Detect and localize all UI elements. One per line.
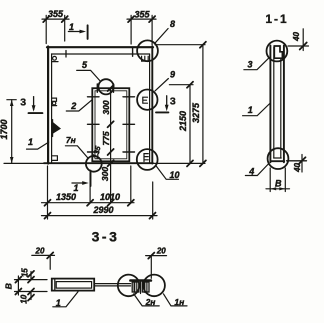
bottom bracket item4 upper line [274,157,281,159]
svg-text:В: В [4,283,14,289]
frame right member inner line [149,54,151,163]
svg-text:1010: 1010 [100,192,120,202]
dim 2150 tick top [187,82,193,88]
hatch tab right y=96.8 [123,96,135,98]
tick 2990 right [150,213,156,219]
joint right lug [142,282,149,292]
ext line B bottom [15,291,48,293]
dim 355 right tick a [128,16,134,22]
ext line B top [15,279,48,281]
svg-text:40: 40 [293,163,302,173]
dim 10 tick [28,289,34,295]
ext frame right to bottom dims [152,182,154,219]
left member bottom tab [52,156,57,161]
dim 355 left ext b [64,15,66,41]
dim 1700 arrow down [10,157,14,163]
section 3 left arrow [33,97,35,110]
label 2 leader [66,100,92,111]
dim 355 right ext b [151,15,153,45]
label 1 leader 3-3 [53,292,78,307]
section 3 right arrow [166,96,168,109]
chain tick y=124.3 [108,121,114,127]
frame top member outer line [47,46,153,48]
dim B tick top [15,277,21,283]
svg-text:355: 355 [134,10,150,20]
joint left lug [132,282,139,292]
tick at frame left [45,200,51,206]
dim 1700 line [11,100,13,164]
label 9 leader [155,79,168,91]
label 8 leader [155,29,168,44]
hatch tab left y=124.3 [88,123,100,125]
circle bottom 1-1 [268,148,289,169]
label 5 leader [77,70,100,80]
bolt hole top-left corner [53,56,57,60]
hatch frame outer rect [92,88,129,161]
hatch tab top x=113.5 [113,84,115,92]
channel left end inner [54,279,56,291]
svg-text:1н: 1н [174,297,184,307]
chain tick y=152 [108,149,114,155]
bottom bracket item4 lower line [271,160,285,162]
svg-text:2н: 2н [145,297,156,307]
section 1 top bar [87,25,89,39]
joint center pin [140,282,142,294]
dim 40 bottom line [301,155,303,173]
dim 20 right ext [150,256,152,279]
svg-text:8: 8 [170,19,175,29]
hatch tab right y=152 [123,151,135,153]
detail circle item5 [98,79,113,94]
tick at hatch right [128,200,134,206]
vertical dim chain line [110,88,112,203]
bracket in circle 8 [142,56,149,61]
dim 40 top ext [288,45,309,47]
bottom extension to 1700 arrow [4,162,47,164]
ext hatch right to dim [130,166,132,203]
chain tick y=88 [108,85,114,91]
dim 20 left tick [47,252,53,258]
dim 355 left tick a [43,16,49,22]
svg-text:15: 15 [21,268,30,277]
frame left member inner line [51,54,53,163]
hatch tab top x=97.3 [96,84,98,92]
svg-text:300: 300 [100,167,110,181]
svg-text:10: 10 [20,294,29,303]
svg-text:9: 9 [170,70,175,80]
dim 3275 line [202,45,204,164]
top member weld tab at x=66 [65,51,67,58]
dim 3275 top ext [155,44,205,46]
svg-text:1: 1 [248,105,253,115]
svg-text:1: 1 [69,22,74,32]
dim B line [266,188,290,190]
section 1 bottom arrow [72,182,86,184]
section 3 left bar [29,112,43,114]
tick 2990 left [45,213,51,219]
dim 2150 tick bottom [187,160,193,166]
detail circle 10 [137,149,158,170]
svg-text:5: 5 [82,60,88,70]
joint left lug hatch [133,282,135,292]
dim 10 bottom tick [28,295,34,301]
bottom dim line 1350/1010 [42,202,135,204]
dim 355 left ext a [45,15,47,43]
dim 40 bottom tick [299,157,306,164]
dim 15 line [30,272,32,280]
detail circle 1n [143,275,165,297]
circle top 1-1 [267,41,288,62]
dim 3275 tick bottom [200,160,206,166]
dim 40 top line [302,29,304,51]
dim 10 line [30,292,32,300]
right bottom ext line [152,162,205,164]
svg-text:3-3: 3-3 [92,228,120,244]
label 3 leader [244,58,269,69]
dim 2150 top ext [169,84,193,86]
dim B arrow right [279,187,285,190]
label 1 leader 1-1 [243,103,271,116]
connecting rod bottom [94,285,130,287]
frame left member outer line [47,47,49,164]
joint top plate [130,279,151,282]
label 2n leader [134,294,160,306]
svg-text:2150: 2150 [178,111,188,132]
label 4 leader [245,164,268,176]
frame bottom member line [44,162,153,164]
bracket in circle 9 [143,97,148,103]
svg-text:1700: 1700 [0,119,9,139]
frame top member inner line [52,53,150,55]
svg-text:7н: 7н [66,135,76,145]
ext frame left to bottom dims [47,166,49,219]
dim 1700 arrow up [10,100,14,106]
dim B tick bottom [15,289,21,295]
dim 355 left tick b [62,16,68,22]
svg-text:В: В [275,179,282,189]
svg-text:300: 300 [101,100,111,114]
dim 355 right ext a [130,15,132,44]
detail circle 2n [118,275,140,297]
top hook item3 [274,46,282,58]
gusset flag on left member [52,120,54,137]
dim B ext right [284,168,286,192]
svg-text:2990: 2990 [92,205,113,215]
channel outer [52,279,94,291]
detail circle 8 [137,40,158,61]
svg-text:20: 20 [156,247,166,256]
top member weld tab at x=132.5 [132,48,134,56]
dim 355 right tick b [149,16,155,22]
svg-text:2: 2 [70,101,76,111]
detail circle 9 [137,90,157,110]
tick at hatch left [87,200,93,206]
joint right lug hatch [144,282,146,292]
label 7n leader [65,146,87,158]
dim 20 left line [32,254,55,256]
chain tick y=163.2 [108,160,114,166]
svg-text:40: 40 [292,32,301,42]
hatch tab left y=96.8 [88,96,100,98]
ext hatch left to dim [89,174,91,204]
dim B arrow left [270,187,276,190]
svg-text:775: 775 [101,131,111,145]
detail circle hatch corner [86,156,102,172]
dim 20 right tick [148,253,154,259]
svg-text:10: 10 [169,170,179,180]
svg-text:355: 355 [48,9,64,19]
section 3 right bar [156,111,168,113]
bar right outer [283,46,285,163]
section 1 bottom bar [90,171,92,186]
connecting rod top [94,283,130,285]
label 1n leader [164,294,188,306]
dim 15 top tick [28,271,34,277]
svg-text:20: 20 [35,247,45,256]
left member mid tab box [52,98,57,101]
bar left inner [273,47,275,158]
svg-text:3: 3 [20,97,26,109]
bottom dim line 2990 [42,215,158,217]
dim B ext left [269,168,271,192]
bracket in circle 10 [144,154,148,162]
chain tick y=202.7 [108,200,114,206]
dim 20 right line [146,255,167,257]
svg-text:3: 3 [170,95,176,107]
left member mid tab hole [52,102,55,105]
svg-text:4: 4 [248,167,254,177]
svg-text:1350: 1350 [56,192,76,202]
dim 2150 line [189,85,191,164]
label 1 left leader [27,142,49,149]
left member mid tab underline [52,105,57,107]
svg-text:1-1: 1-1 [265,12,288,26]
hatch tab left y=152 [88,151,100,153]
hatch tab right y=124.3 [123,123,135,125]
dim 40 top tick [300,43,307,50]
svg-text:3: 3 [247,59,252,69]
dim 355 right line [127,18,156,20]
bar left outer [269,46,271,163]
dim 20 left ext [49,255,51,269]
dim 15 tick [28,277,34,283]
dim 3275 tick top [200,42,206,48]
dim B 3-3 line [17,276,19,295]
left corner tab underline [52,61,58,63]
svg-text:1: 1 [56,298,61,308]
dim 1700 top crossbar [7,99,16,101]
dim 40 bottom ext [287,160,307,162]
channel inner rect [56,282,91,289]
label 10 leader [156,165,179,179]
section 1 top arrow [68,31,83,33]
bar right inner [280,59,282,159]
hatch frame inner rect [95,91,127,159]
frame right member outer line [151,47,153,164]
svg-text:1: 1 [28,137,33,147]
svg-text:3275: 3275 [191,102,201,123]
dim 355 left line [42,18,69,20]
